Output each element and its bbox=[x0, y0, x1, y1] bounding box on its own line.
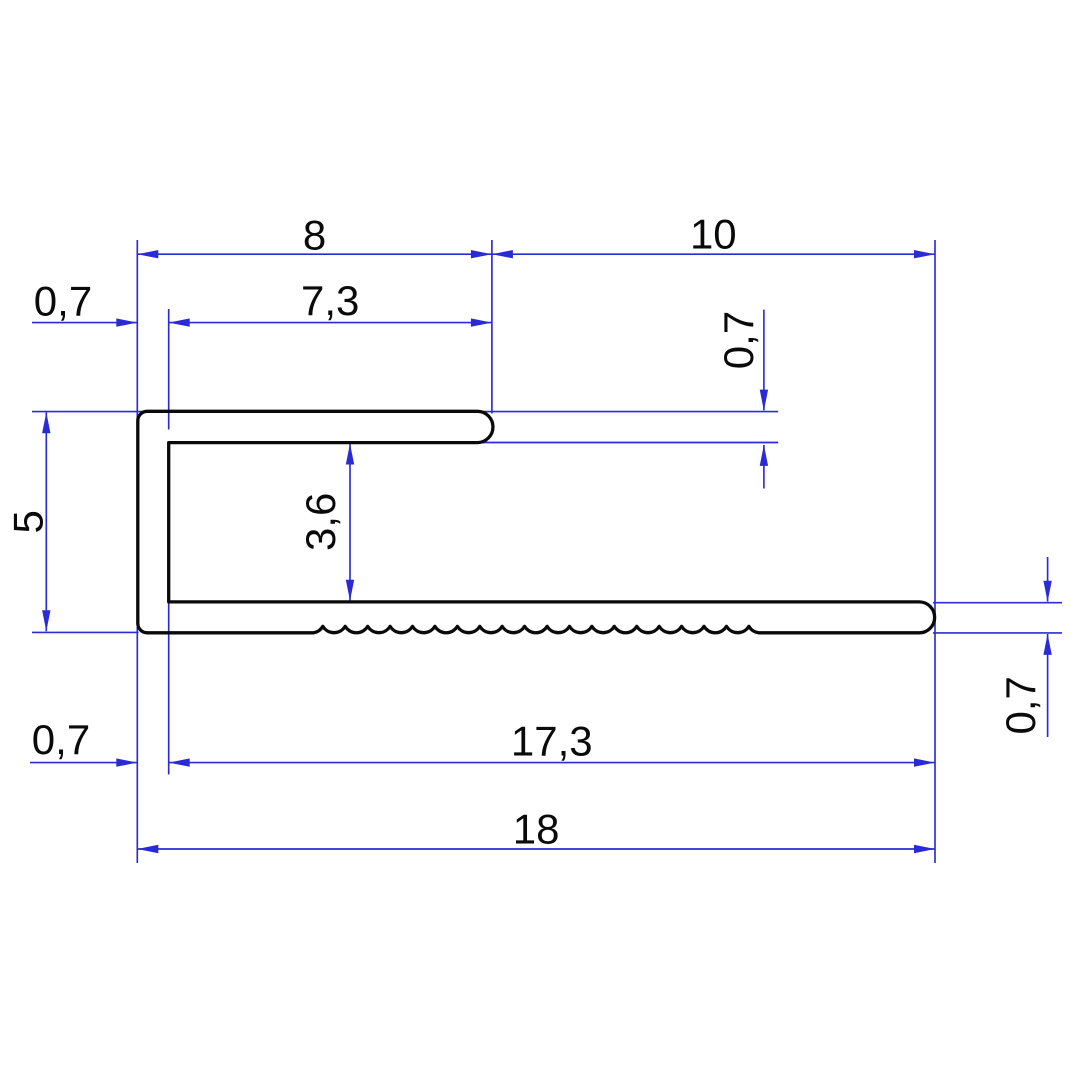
svg-text:3,6: 3,6 bbox=[297, 493, 344, 551]
svg-text:0,7: 0,7 bbox=[34, 278, 92, 325]
svg-text:0,7: 0,7 bbox=[715, 311, 762, 369]
svg-text:0,7: 0,7 bbox=[997, 676, 1044, 734]
svg-text:7,3: 7,3 bbox=[301, 277, 359, 324]
svg-text:17,3: 17,3 bbox=[511, 718, 593, 765]
svg-text:0,7: 0,7 bbox=[32, 716, 90, 763]
svg-text:10: 10 bbox=[690, 211, 737, 258]
svg-text:18: 18 bbox=[513, 806, 560, 853]
svg-text:8: 8 bbox=[303, 212, 326, 259]
svg-text:5: 5 bbox=[5, 510, 52, 533]
